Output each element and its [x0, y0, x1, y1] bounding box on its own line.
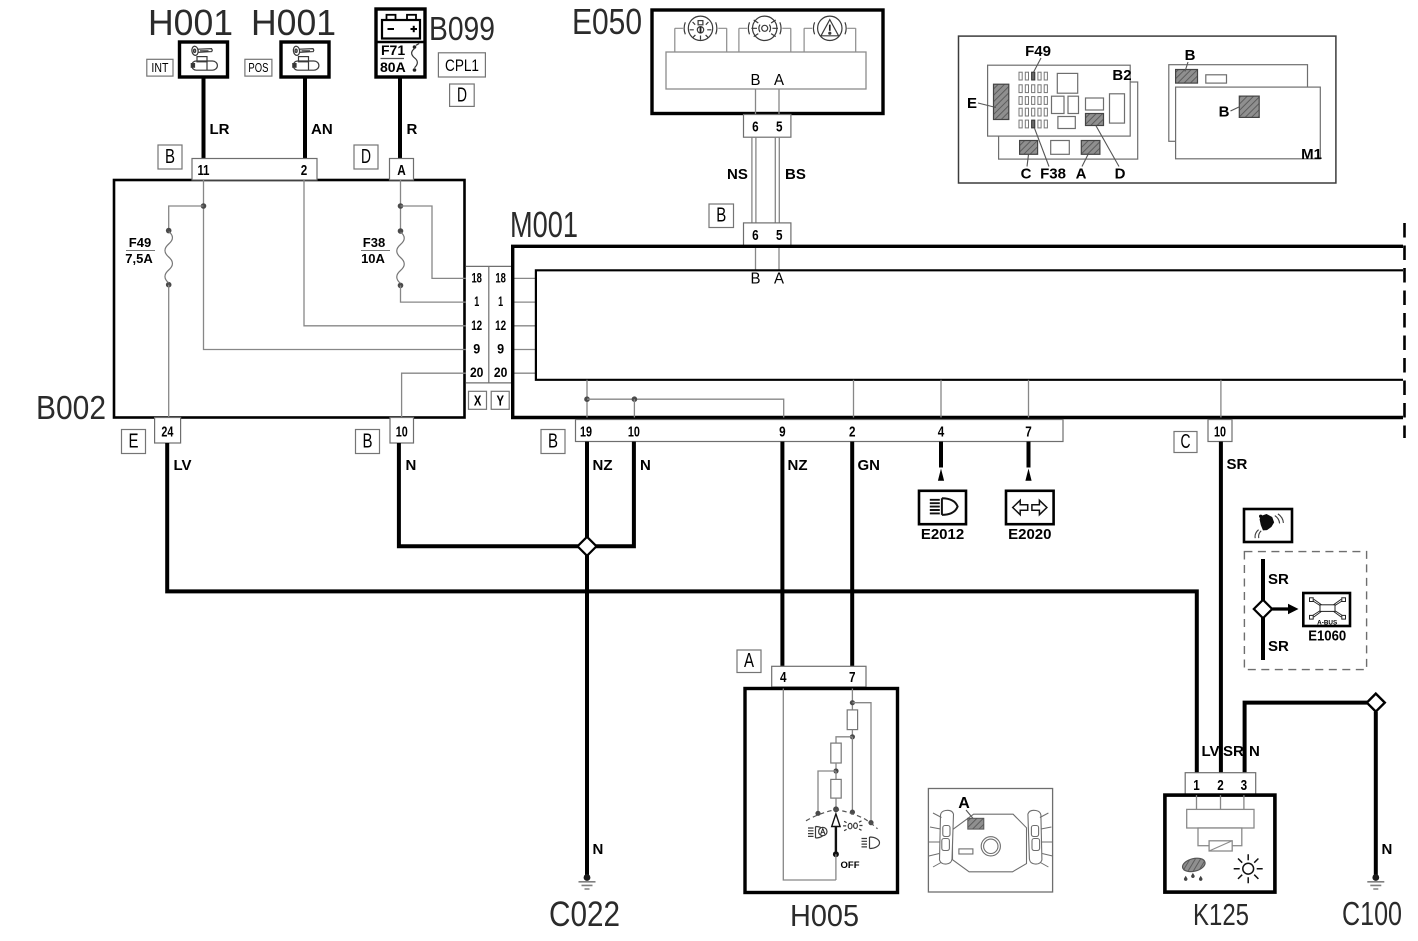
steering column body: [953, 814, 1027, 872]
wire pin4 internal (H005): [783, 689, 836, 881]
switch H001 POS box: [281, 42, 329, 77]
icon rain: [1181, 856, 1206, 881]
svg-text:D: D: [457, 85, 467, 107]
svg-text:B: B: [165, 146, 175, 168]
svg-text:7,5A: 7,5A: [125, 251, 153, 266]
relay A (hatched): [1081, 141, 1100, 155]
left stalk: [929, 810, 954, 867]
resistor R3 (H005): [831, 771, 841, 798]
connector tag A (H005): [737, 650, 761, 673]
wire internal bus 19-10-9: [587, 399, 784, 417]
wire branch to right contact: [852, 703, 873, 826]
wire pin11 to pin9 row: [204, 180, 467, 350]
connector tag C: [1174, 431, 1197, 453]
wire pin10C internal: [1220, 380, 1222, 418]
destination E2020 (turn signals): [1006, 491, 1054, 543]
relay boxes on B2 card: [1052, 73, 1125, 128]
svg-text:19: 19: [580, 424, 592, 441]
svg-text:E2020: E2020: [1008, 526, 1051, 543]
svg-text:4: 4: [780, 669, 787, 686]
steering column switch A (hatched): [968, 818, 984, 829]
svg-text:N: N: [1249, 743, 1260, 760]
svg-text:NZ: NZ: [788, 457, 808, 474]
svg-text:2: 2: [849, 424, 856, 441]
wire N from junction to K125 pin3: [1245, 703, 1367, 773]
node pin19 junction: [584, 396, 590, 402]
connector 10 (B002 bottom): [390, 418, 414, 444]
svg-text:SR: SR: [1268, 638, 1289, 655]
connector 24 (B002 bottom): [155, 418, 181, 444]
junction diamond (N wires): [578, 537, 597, 556]
resistor R1 (H005): [847, 710, 857, 730]
svg-text:5: 5: [776, 119, 783, 136]
svg-text:BS: BS: [785, 166, 806, 183]
wires into M001 inner box: [756, 246, 780, 270]
pin column X (B002 side): [466, 266, 513, 383]
relay white (back card): [1051, 141, 1070, 155]
label B099: [429, 10, 495, 47]
switch arc (dashed): [806, 810, 878, 829]
icon sun: [1234, 854, 1263, 883]
connector 6 5 (M001): [744, 223, 791, 246]
K125 sensor body: [1187, 809, 1254, 851]
resistor R2 (H005): [831, 743, 841, 763]
connector 10 C (M001 bottom): [1208, 420, 1232, 442]
svg-text:POS: POS: [248, 60, 268, 75]
wire NZ pin9 to H005 pin4: [782, 442, 807, 667]
wire pin7 internal (H005): [851, 689, 853, 710]
svg-text:F49: F49: [1025, 43, 1051, 60]
svg-text:Y: Y: [497, 393, 505, 410]
junction diamond (C100): [1367, 694, 1385, 712]
svg-text:12: 12: [471, 318, 482, 333]
connector 1 2 3 (K125): [1185, 773, 1256, 795]
module back card (right group): [1169, 65, 1308, 142]
switch H001 INT box: [180, 42, 228, 77]
wire pin20 row to bottom pin 10: [402, 373, 466, 417]
svg-text:B: B: [1219, 104, 1230, 121]
svg-text:B: B: [548, 430, 558, 452]
svg-text:N: N: [406, 457, 417, 474]
svg-text:D: D: [361, 146, 371, 168]
fuse F38 10A: [361, 228, 404, 288]
connector tag INT: [147, 59, 173, 76]
svg-text:A: A: [744, 650, 754, 672]
body computer M001 box: [513, 246, 1403, 417]
node pin11 branch: [201, 203, 207, 209]
svg-text:B: B: [751, 271, 761, 288]
svg-text:H005: H005: [790, 898, 859, 933]
wire pinA down: [400, 180, 402, 231]
svg-text:2: 2: [1217, 777, 1224, 794]
battery icon: [382, 15, 420, 39]
svg-text:4: 4: [938, 424, 945, 441]
label H001 (first): [148, 2, 233, 43]
label B mid + leader: [1219, 104, 1240, 121]
wire branch to pin18 row: [401, 206, 467, 278]
connector tag Y: [491, 391, 509, 409]
svg-text:F38: F38: [1040, 166, 1066, 183]
icon panel lighting: [843, 821, 862, 831]
label H005: [790, 898, 859, 933]
connection node E1060 (A-BUS): [1303, 593, 1350, 645]
label D + leader: [1096, 126, 1126, 183]
cluster E050 box: [652, 10, 883, 114]
label OFF: [841, 860, 860, 871]
wire pin7 internal: [1028, 380, 1030, 418]
location panel outer box: [959, 36, 1336, 183]
svg-text:18: 18: [471, 270, 482, 285]
svg-text:7: 7: [1025, 424, 1032, 441]
ground C100: [1342, 874, 1402, 932]
svg-text:9: 9: [473, 342, 480, 357]
cluster inner bar: [666, 52, 866, 89]
wire R1 to node: [850, 730, 855, 740]
label F38 + leader: [1035, 128, 1066, 182]
svg-text:B: B: [1185, 47, 1196, 64]
wire center contact: [850, 737, 855, 815]
relay D (hatched): [1086, 114, 1104, 126]
svg-text:B: B: [363, 430, 373, 452]
svg-text:D: D: [1115, 166, 1126, 183]
fuse F38 (hatched in grid): [1032, 120, 1035, 128]
connector B on M1 (hatched): [1239, 96, 1259, 117]
icon parking lights: [808, 827, 827, 839]
connector A (top of B002): [390, 159, 414, 181]
wire BS (double): [775, 137, 806, 223]
pin labels B A inside cluster bar: [751, 72, 785, 89]
svg-text:N: N: [593, 841, 604, 858]
steering column illustration box: [928, 789, 1052, 893]
label H001 (second): [251, 2, 336, 43]
label E + leader: [967, 95, 996, 112]
svg-text:C100: C100: [1342, 895, 1402, 932]
label E050: [572, 1, 642, 42]
hazard warning icon (triangle): [804, 16, 856, 52]
svg-text:C: C: [1181, 431, 1191, 453]
wire N junction to ground C100: [1376, 712, 1393, 876]
rain/light sensor K125 box: [1165, 795, 1275, 892]
svg-text:12: 12: [495, 318, 506, 333]
svg-text:C: C: [1021, 166, 1032, 183]
wire pin10 internal: [633, 399, 635, 417]
connector tag POS: [245, 59, 272, 76]
svg-text:1: 1: [498, 294, 503, 309]
wire node to R2: [836, 737, 852, 743]
connector strip B (M001 bottom): [576, 420, 1064, 442]
svg-text:M1: M1: [1301, 146, 1322, 163]
svg-text:1: 1: [1193, 777, 1200, 794]
buzzer icon box: [1244, 509, 1292, 542]
wire R2 to node: [833, 763, 838, 774]
M001 inner module box: [536, 270, 1403, 380]
wire NS (double): [727, 137, 756, 223]
switch rotor arrow: [832, 814, 840, 857]
fuse F49 7,5A: [125, 228, 172, 288]
label C + leader: [1021, 155, 1032, 183]
svg-text:NZ: NZ: [593, 457, 613, 474]
icon headlights: [862, 837, 880, 849]
svg-text:K125: K125: [1193, 897, 1249, 932]
pin labels B A inside M001: [751, 271, 785, 288]
label F49 + leader: [1025, 43, 1051, 72]
wire AN from H001 POS to B002 pin 2: [305, 77, 333, 159]
M001 continuation dashed edge: [1403, 223, 1406, 438]
label B002: [36, 389, 106, 426]
svg-text:10: 10: [1214, 424, 1226, 441]
svg-text:INT: INT: [151, 60, 168, 75]
connector E (hatched): [994, 84, 1009, 119]
wire R3 to pivot contact: [833, 798, 839, 812]
junction diamond (A-BUS tap): [1254, 600, 1272, 618]
relay C (hatched): [1020, 141, 1038, 155]
connector tag E: [122, 430, 146, 454]
light switch H005 box: [745, 689, 898, 893]
wire pin4 internal: [940, 380, 942, 418]
label B top + leader: [1185, 47, 1196, 72]
svg-text:AN: AN: [311, 121, 333, 138]
svg-text:7: 7: [849, 669, 856, 686]
panel lighting icon: [739, 16, 791, 52]
svg-text:X: X: [474, 393, 482, 410]
svg-text:3: 3: [1241, 777, 1248, 794]
svg-text:M001: M001: [510, 204, 578, 245]
svg-text:F71: F71: [381, 42, 405, 58]
svg-text:LV: LV: [1202, 743, 1220, 760]
svg-text:C022: C022: [549, 895, 620, 934]
svg-text:F38: F38: [363, 235, 385, 250]
wire GN pin2 to H005 pin7: [852, 442, 880, 667]
fuse grid: [1019, 72, 1047, 128]
connector tag X: [469, 391, 487, 409]
key icon H001 POS: [293, 46, 319, 70]
svg-text:A-BUS: A-BUS: [1317, 619, 1337, 626]
fuse F71 80A: [380, 42, 419, 75]
svg-text:6: 6: [752, 227, 759, 244]
svg-text:24: 24: [161, 424, 173, 441]
svg-text:20: 20: [494, 365, 508, 380]
wire branch to fuse F49: [169, 206, 204, 231]
wire SR pin10C to K125 pin2: [1221, 442, 1248, 773]
K125 pin shafts: [1197, 795, 1244, 809]
connector 4 7 (H005): [772, 666, 866, 687]
svg-text:H001: H001: [251, 2, 336, 43]
svg-text:N: N: [640, 457, 651, 474]
wire LV pin24 to K125 pin1: [167, 443, 1197, 773]
svg-text:11: 11: [198, 162, 210, 179]
warning lamp icon (bulb): [675, 16, 727, 52]
svg-text:A: A: [1076, 166, 1087, 183]
svg-text:LR: LR: [210, 121, 230, 138]
svg-text:9: 9: [497, 342, 504, 357]
node pin10 junction: [632, 396, 638, 402]
wire pin19 internal: [586, 380, 588, 418]
wire LR from H001 INT to B002 pin 11: [204, 77, 230, 159]
wire pin4 stub to E2012: [938, 442, 944, 481]
label M001: [510, 204, 578, 245]
wire node to left contact: [815, 771, 836, 816]
svg-text:GN: GN: [858, 457, 881, 474]
connector tag B (M001 bottom): [541, 430, 565, 454]
svg-text:E2012: E2012: [921, 526, 964, 543]
module M1 front card: [1176, 87, 1322, 163]
destination E2012 (low beam): [919, 491, 966, 543]
wire F38 to pin1 row: [401, 285, 467, 302]
svg-text:E1060: E1060: [1308, 628, 1346, 645]
svg-text:SR: SR: [1227, 456, 1248, 473]
dashed option box: [1244, 552, 1366, 670]
node pinA branch: [398, 203, 404, 209]
svg-text:B: B: [751, 72, 761, 89]
svg-text:E050: E050: [572, 1, 642, 42]
svg-text:NS: NS: [727, 166, 748, 183]
svg-text:2: 2: [301, 162, 308, 179]
fusebox B002 box: [114, 180, 465, 418]
svg-text:N: N: [1382, 841, 1393, 858]
svg-text:9: 9: [779, 424, 786, 441]
wire R from B099 to B002 pin A: [400, 77, 418, 159]
svg-text:B099: B099: [429, 10, 495, 47]
wire F49 to pin 24: [168, 285, 170, 418]
fuse card back (B2 group): [999, 82, 1138, 159]
connector tag CPL1: [438, 53, 485, 77]
connector tag D (B099): [450, 84, 475, 107]
stub wires Y column to M001 inner box: [511, 278, 536, 373]
svg-text:18: 18: [495, 270, 506, 285]
wire N pin10 M001 to junction: [595, 442, 651, 547]
battery B099 box: [376, 9, 425, 77]
svg-text:6: 6: [752, 119, 759, 136]
svg-text:A: A: [397, 162, 406, 179]
label K125: [1193, 897, 1249, 932]
svg-text:LV: LV: [174, 457, 192, 474]
connector B back (hatched): [1176, 70, 1198, 84]
svg-text:CPL1: CPL1: [445, 56, 479, 75]
arrow to E1060: [1272, 604, 1298, 614]
connector tag B (B002 bottom): [356, 430, 380, 454]
node pin7 branch: [850, 700, 855, 705]
svg-text:R: R: [407, 121, 418, 138]
wire label N near ground C022: [593, 841, 604, 858]
right stalk: [1028, 810, 1053, 867]
label A + leader: [1076, 155, 1088, 183]
svg-text:A: A: [774, 271, 784, 288]
ground C022: [549, 874, 620, 934]
svg-text:80A: 80A: [380, 59, 406, 75]
svg-text:E: E: [967, 95, 977, 112]
svg-text:10: 10: [396, 424, 408, 441]
svg-text:10A: 10A: [361, 251, 385, 266]
connector 6 5 (E050): [744, 115, 791, 138]
fuse F49 (hatched in grid): [1032, 72, 1035, 80]
wire rotor to pin4 bus: [835, 854, 837, 880]
connector tag B (B002 top): [158, 145, 182, 169]
connector white (back right): [1206, 75, 1227, 83]
fuse card front B2: [988, 65, 1132, 136]
pin column Y (M001 side): [494, 270, 508, 380]
connector tag B (M001 top): [709, 204, 734, 228]
wire N pin10 B002 to junction: [399, 443, 579, 546]
svg-text:5: 5: [776, 227, 783, 244]
svg-text:B2: B2: [1112, 67, 1131, 84]
svg-text:B: B: [716, 205, 726, 227]
svg-text:A: A: [958, 795, 970, 812]
wire NZ pin19 to ground C022: [587, 442, 613, 876]
svg-text:20: 20: [470, 365, 484, 380]
svg-text:1: 1: [474, 294, 479, 309]
wire labels LV SR N at K125: [1202, 743, 1260, 760]
svg-text:A: A: [774, 72, 784, 89]
svg-text:H001: H001: [148, 2, 233, 43]
svg-text:SR: SR: [1223, 743, 1244, 760]
connector strip pins 11 2 (top of B002): [192, 159, 317, 181]
svg-text:E: E: [129, 430, 139, 452]
svg-text:B002: B002: [36, 389, 106, 426]
wire pin2 to pin12 row: [304, 180, 466, 326]
svg-text:10: 10: [628, 424, 640, 441]
connector tag D (B002 top): [354, 145, 378, 169]
wire pin7 stub to E2020: [1025, 442, 1031, 481]
wire SR fragment (A-BUS): [1263, 559, 1289, 660]
steering column label A: [958, 795, 976, 822]
wire pin2 internal: [853, 380, 855, 418]
key icon H001 INT: [191, 46, 217, 70]
wires B/A to connector 6 5: [756, 89, 780, 115]
svg-text:SR: SR: [1268, 571, 1289, 588]
svg-text:OFF: OFF: [841, 860, 860, 871]
svg-text:F49: F49: [129, 235, 151, 250]
